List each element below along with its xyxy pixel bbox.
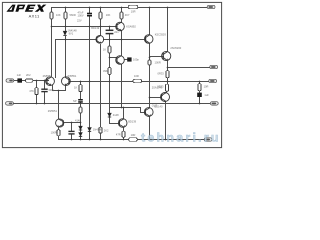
junction node x167.5 y67.5 bbox=[167, 67, 169, 69]
wire col x80 D2 to rail bbox=[80, 137, 82, 140]
svg-text:100V: 100V bbox=[78, 14, 84, 18]
junction node x123.5 y139.5 bbox=[123, 139, 125, 141]
wire Q4 base branch bbox=[109, 40, 111, 82]
svg-text:560R: 560R bbox=[70, 13, 76, 17]
svg-text:2SC5200: 2SC5200 bbox=[170, 46, 181, 50]
wire col x65 R2 top bbox=[65, 8, 67, 13]
svg-text:10K: 10K bbox=[106, 13, 111, 17]
resistor RE1 bbox=[166, 71, 169, 78]
junction node x89.5 y139.5 bbox=[89, 139, 91, 141]
wire col x109.5 corner to D4 bbox=[109, 108, 111, 114]
resistor R2 bbox=[64, 12, 67, 19]
wire col x199.8 C5 to bus bbox=[199, 98, 201, 104]
junction node x109.5 y39.5 bbox=[109, 39, 111, 41]
svg-text:NP: NP bbox=[73, 99, 77, 103]
wire col x58.7 QT emitter bbox=[58, 128, 60, 130]
wire col x121 R4 top bbox=[121, 8, 123, 13]
APEX logo bbox=[6, 5, 46, 12]
wire col x100.7 R3 top bbox=[100, 8, 102, 13]
resistor R feedback shunt bbox=[79, 85, 82, 92]
svg-text:10R: 10R bbox=[134, 74, 139, 78]
wire col x100.7 R3 to Q1 bbox=[100, 20, 102, 36]
wire col x109.5 cap C2 bbox=[109, 27, 111, 30]
junction node x109.5 y81.5 bbox=[109, 81, 111, 83]
junction node x80.5 y103.5 bbox=[80, 103, 82, 105]
wire col x109.5 cap C2 bottom bbox=[109, 35, 111, 40]
connector -V right bbox=[204, 138, 212, 141]
junction node x44.5 y103.5 bbox=[44, 103, 46, 105]
junction node x65.5 y7.5 bbox=[65, 7, 67, 9]
svg-text:AX11: AX11 bbox=[29, 13, 40, 18]
svg-text:330p: 330p bbox=[48, 88, 54, 92]
junction node x123.5 y107.5 bbox=[123, 107, 125, 109]
resistor RT QT emitter bbox=[57, 130, 60, 136]
junction node x36.5 y103.5 bbox=[36, 103, 38, 105]
svg-text:0R33: 0R33 bbox=[158, 72, 165, 76]
wire col x89.8 long vertical bbox=[89, 17, 91, 128]
wire col x65 R2 bottom bbox=[65, 20, 67, 32]
junction node x51.5 y26.5 bbox=[51, 26, 53, 28]
wire Q4 base line y57 bbox=[110, 57, 117, 59]
wire diff tail y90 bbox=[53, 86, 66, 91]
junction node x71.5 y122.5 bbox=[71, 122, 73, 124]
connector input signal bbox=[6, 79, 14, 82]
capacitor C1 elco top bbox=[87, 13, 92, 17]
resistor R input series bbox=[26, 79, 33, 82]
svg-text:4148: 4148 bbox=[75, 118, 81, 122]
connector +V right bbox=[207, 5, 215, 8]
resistor R fb lower bbox=[79, 107, 82, 113]
resistor R rail inline bottom bbox=[129, 138, 138, 141]
wire col x149.7 Q3 to corner bbox=[149, 44, 151, 61]
junction node x149.5 y7.5 bbox=[149, 7, 151, 9]
diode D1 bias bbox=[79, 126, 82, 130]
svg-text:22n: 22n bbox=[114, 30, 119, 34]
wire col x109.5 lower to corner bbox=[109, 82, 111, 108]
wire -V rail bbox=[59, 136, 205, 140]
junction node x149.5 y97.5 bbox=[149, 97, 151, 99]
junction node x71.5 y139.5 bbox=[71, 139, 73, 141]
wire col x100.7 R8 to rail bbox=[100, 134, 102, 140]
capacitor C4 nfb elco bbox=[78, 99, 83, 103]
diode D zener left bbox=[63, 31, 66, 35]
svg-text:100R: 100R bbox=[155, 61, 161, 65]
wire col x167 rail to Q5 bbox=[167, 8, 169, 52]
wire col x123.7 R9 to rail bbox=[123, 138, 125, 140]
transistor Q6 bbox=[161, 93, 170, 102]
wire col x44.5 input C bbox=[44, 81, 46, 89]
junction node x65.5 y26.5 bbox=[65, 26, 67, 28]
junction node x165.5 y139.5 bbox=[165, 139, 167, 141]
wire col x100.7 Q1 down bbox=[100, 45, 102, 128]
svg-text:1N4148: 1N4148 bbox=[93, 128, 103, 132]
svg-text:2N5551: 2N5551 bbox=[67, 74, 77, 78]
wire output top y67 to connector bbox=[168, 67, 210, 69]
wire col x80 fb R to C4 bbox=[80, 92, 82, 100]
wire col x51 R1 top bbox=[51, 8, 53, 13]
svg-text:BD139: BD139 bbox=[128, 120, 136, 124]
svg-text:2K2: 2K2 bbox=[26, 73, 31, 77]
svg-text:4148: 4148 bbox=[113, 113, 119, 117]
junction node x65.5 y39.5 bbox=[65, 39, 67, 41]
junction node x58.5 y90.5 bbox=[58, 90, 60, 92]
svg-text:22V: 22V bbox=[77, 19, 82, 23]
svg-text:tehnari.ru: tehnari.ru bbox=[141, 131, 219, 145]
junction node x109.5 y26.5 bbox=[109, 26, 111, 28]
wire B1 link bbox=[125, 59, 128, 61]
wire col x36.5 R11 to bus bbox=[36, 95, 38, 104]
wire +V rail bbox=[52, 7, 208, 9]
resistor R8 bbox=[99, 127, 102, 133]
wire col x199.8 zobel bbox=[199, 82, 201, 84]
transistor Q7 bbox=[144, 108, 153, 117]
wire col x149.7 rail to Q3 bbox=[149, 8, 151, 35]
wire main mid line y81 bbox=[70, 81, 209, 83]
svg-text:100R: 100R bbox=[51, 130, 57, 134]
wire col x65 diode to QD2 bbox=[65, 37, 67, 77]
svg-text:1uF: 1uF bbox=[204, 93, 209, 97]
junction node x121.5 y7.5 bbox=[121, 7, 123, 9]
resistor R output inline bbox=[133, 79, 142, 82]
wire col x123.7 QB collector up bbox=[123, 108, 125, 119]
svg-text:10K: 10K bbox=[56, 13, 61, 17]
diode D4 bbox=[108, 113, 111, 117]
junction node x199.5 y81.5 bbox=[199, 81, 201, 83]
wire col x121 R4 to Q2 bbox=[121, 20, 123, 23]
svg-text:2N5551: 2N5551 bbox=[43, 74, 53, 78]
junction node x149.5 y57.5 bbox=[149, 57, 151, 59]
junction node x100.5 y26.5 bbox=[100, 26, 102, 28]
wire col x167 R0 to R1 bbox=[167, 78, 169, 85]
wire col x121 Q2 to Q4 bbox=[121, 31, 123, 56]
svg-text:1K: 1K bbox=[74, 86, 77, 90]
wire col x123.7 QB emitter down bbox=[123, 128, 125, 132]
junction node x80.5 y122.5 bbox=[80, 122, 82, 124]
transistor Q5 bbox=[162, 51, 171, 60]
wire col x89.8 diode to rail bbox=[89, 132, 91, 140]
wire col x36.5 input R bbox=[36, 81, 38, 88]
svg-text:BD140: BD140 bbox=[155, 104, 163, 108]
svg-text:10R: 10R bbox=[131, 10, 136, 14]
diode D2 bias bbox=[79, 133, 82, 137]
resistor RE2 bbox=[165, 84, 168, 91]
junction node x89.5 y26.5 bbox=[89, 26, 91, 28]
wire col x80 fb resistor top bbox=[80, 82, 82, 85]
junction node x167.5 y81.5 bbox=[167, 81, 169, 83]
wire QB base y123 bbox=[110, 123, 120, 125]
wire col x80 D1 D2 gap bbox=[80, 131, 82, 133]
junction node x121.5 y39.5 bbox=[121, 39, 123, 41]
svg-text:2K2: 2K2 bbox=[104, 128, 109, 132]
junction node x89.5 y7.5 bbox=[89, 7, 91, 9]
diode D3 bbox=[88, 128, 91, 132]
transistor Q2 bbox=[116, 22, 125, 31]
wire col x80 bus to R12 bbox=[80, 104, 82, 108]
transistor QT bbox=[56, 119, 64, 127]
wire col x149.7 Q7 emitter to rail bbox=[149, 117, 151, 140]
capacitor C2 miller bbox=[106, 30, 114, 33]
junction node x121.5 y107.5 bbox=[121, 107, 123, 109]
junction node x36.5 y80.5 bbox=[36, 80, 38, 82]
svg-text:47K: 47K bbox=[29, 89, 34, 93]
capacitor C5 zobel film bbox=[197, 93, 202, 97]
junction node x80.5 y81.5 bbox=[80, 81, 82, 83]
wire Q1-Q3 line y39.8 bbox=[104, 39, 146, 41]
wire col x167 Q5 emitter bbox=[167, 61, 169, 71]
capacitor C6 input hf bbox=[41, 89, 47, 91]
svg-text:BD139: BD139 bbox=[91, 26, 99, 30]
wire col x199.8 R10 to C5 bbox=[199, 91, 201, 93]
wire col x44.5 C6 to bus bbox=[44, 93, 46, 104]
wire col x51 R1 to QD1 bbox=[51, 20, 53, 77]
transistor Q4 bbox=[116, 56, 125, 65]
wire ground bus y103.4 bbox=[14, 103, 211, 105]
svg-text:10R: 10R bbox=[131, 133, 136, 137]
svg-text:39K: 39K bbox=[103, 69, 108, 73]
capacitor C input film bbox=[17, 78, 22, 82]
svg-text:2N5551: 2N5551 bbox=[48, 109, 58, 113]
wire col x149.7 R6 to Q7 bbox=[149, 66, 151, 108]
wire col x121 Q4 down bbox=[121, 65, 123, 108]
transistor QD2 bbox=[62, 77, 71, 86]
junction node x100.5 y7.5 bbox=[100, 7, 102, 9]
svg-text:2SA1943: 2SA1943 bbox=[152, 86, 163, 90]
wire col x71.3 cap C3 bottom bbox=[71, 135, 73, 140]
resistor R zobel bbox=[198, 84, 201, 91]
transistor Q3 bbox=[144, 35, 153, 44]
wire col x89.8 cap top bbox=[89, 8, 91, 13]
svg-text:100p: 100p bbox=[133, 58, 139, 62]
svg-text:47R: 47R bbox=[116, 132, 121, 136]
junction node x109.5 y57.5 bbox=[109, 57, 111, 59]
connector out2 right bbox=[209, 79, 217, 82]
resistor R1 bbox=[50, 12, 53, 19]
junction node x100.5 y139.5 bbox=[100, 139, 102, 141]
wire input line y80.5 bbox=[14, 80, 49, 82]
transistor QB bbox=[118, 119, 127, 128]
resistor R5b bbox=[108, 68, 111, 75]
border frame bbox=[2, 2, 221, 147]
resistor R3 bbox=[99, 12, 102, 19]
wire lower branch y107.6 bbox=[110, 108, 146, 113]
wire QT base y122.5 bbox=[64, 122, 81, 124]
wire col x80 R12 to base line bbox=[80, 114, 82, 127]
resistor R4 bbox=[120, 12, 123, 19]
wire col x109.5 D4 to QB base line bbox=[109, 118, 111, 124]
resistor R6 bbox=[148, 60, 151, 65]
svg-text:1uF: 1uF bbox=[17, 73, 22, 77]
resistor R7 rail decoupling bbox=[128, 5, 138, 8]
wire col x166 Q6 collector to rail bbox=[165, 102, 167, 140]
junction node x44.5 y80.5 bbox=[44, 80, 46, 82]
svg-text:1K: 1K bbox=[103, 48, 106, 52]
junction node x80.5 y139.5 bbox=[80, 139, 82, 141]
junction node x167.5 y7.5 bbox=[167, 7, 169, 9]
wire upper bus y26 bbox=[52, 26, 117, 28]
wire Q1 base line y39 bbox=[56, 39, 97, 41]
transistor Q1 bbox=[96, 35, 104, 43]
wire col x71.3 cap C3 top bbox=[71, 123, 73, 131]
junction node x149.5 y139.5 bbox=[149, 139, 151, 141]
svg-text:KSA992: KSA992 bbox=[126, 25, 136, 29]
svg-text:KSC3503: KSC3503 bbox=[155, 32, 167, 36]
resistor R9 QB emitter bbox=[122, 131, 125, 137]
connector out1 right bbox=[210, 65, 218, 68]
svg-text:10R: 10R bbox=[204, 84, 209, 88]
junction node x199.5 y103.5 bbox=[199, 103, 201, 105]
resistor R5 bbox=[108, 46, 111, 53]
connector input gnd bbox=[6, 102, 14, 105]
capacitor C3 bypass bbox=[68, 131, 74, 134]
wire col x166 R1 to Q6 bbox=[166, 91, 168, 93]
wire Q6 base line y97 bbox=[150, 97, 162, 99]
transistor QD1 bbox=[46, 77, 55, 86]
wire col x80 C4 to bus bbox=[80, 103, 82, 104]
capacitor B1 q4 bbox=[127, 57, 131, 61]
resistor R input shunt bbox=[35, 88, 38, 95]
wire Q5 base line y56.5 bbox=[150, 56, 164, 58]
svg-text:4K7: 4K7 bbox=[125, 13, 130, 17]
svg-text:1N4148: 1N4148 bbox=[68, 29, 78, 33]
wire tail drop bbox=[58, 91, 60, 119]
connector gnd right bbox=[210, 102, 218, 105]
wire col x55.8 corner drop bbox=[55, 40, 57, 78]
junction node x89.5 y81.5 bbox=[89, 81, 91, 83]
